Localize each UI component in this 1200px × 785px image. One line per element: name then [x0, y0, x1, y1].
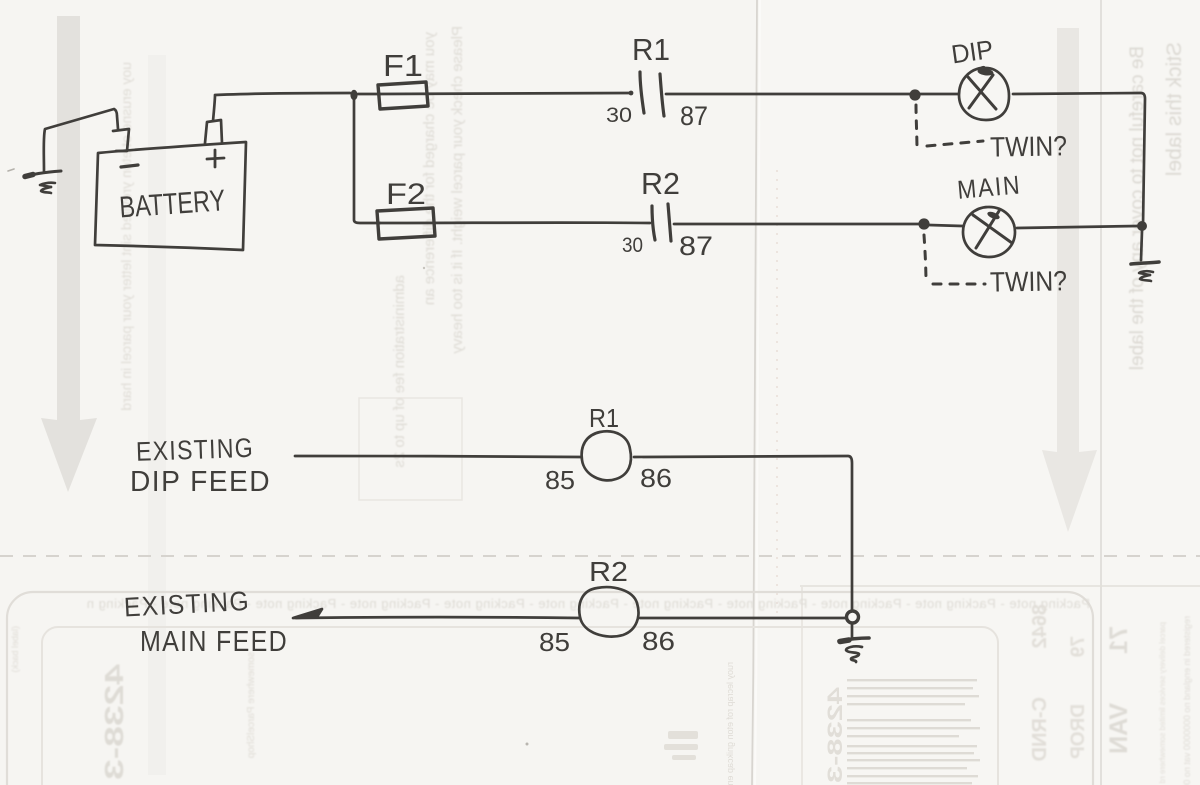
wire: node A to fuse F1: [358, 93, 380, 96]
ground (battery negative return): [8, 169, 61, 193]
relay coil R2 (pins 85 / 86): [539, 556, 675, 657]
svg-text:you may be charged for the dif: you may be charged for the difference an: [421, 32, 438, 305]
crease and faint verticals: [752, 0, 757, 785]
svg-text:DIP: DIP: [949, 34, 995, 70]
label: EXISTING MAIN FEED: [123, 586, 288, 658]
relay contact R1 (pins 30 / 87): [606, 32, 708, 131]
svg-text:87: 87: [679, 231, 713, 261]
svg-text:MAIN FEED: MAIN FEED: [140, 626, 288, 658]
wire: node B to DIP lamp: [920, 93, 958, 96]
fuse F1: [378, 48, 428, 109]
svg-text:4238-3: 4238-3: [824, 687, 847, 783]
faint label boxes: [7, 592, 1093, 785]
svg-text:administration fee of up to 2s: administration fee of up to 2s: [391, 275, 408, 468]
dashed fold line: [0, 555, 1200, 557]
svg-text:8642: 8642: [1029, 604, 1051, 649]
wire: main feed arrow to relay coil R2: [296, 616, 579, 619]
node B junction: [909, 89, 920, 100]
svg-text:F2: F2: [386, 178, 426, 211]
svg-text:TWIN?: TWIN?: [990, 265, 1068, 297]
svg-text:registered in england no 00000: registered in england no 0000000 vat no …: [1182, 616, 1192, 785]
wire: fuse F1 to relay contact R1: [380, 93, 631, 94]
wire: node E down to coil-return ground: [851, 623, 854, 638]
svg-text:F1: F1: [383, 48, 423, 83]
node D junction: [918, 218, 929, 229]
svg-text:85: 85: [545, 465, 575, 495]
svg-text:DIP FEED: DIP FEED: [130, 466, 271, 498]
fuse F2: [377, 178, 435, 239]
svg-text:uoy erusne ot eton yreviled si: uoy erusne ot eton yreviled siht letter …: [118, 62, 134, 411]
wire: battery positive to node A: [213, 93, 350, 121]
node A junction: [350, 90, 357, 100]
wire: node D to MAIN lamp: [929, 225, 962, 226]
svg-text:R1: R1: [589, 403, 619, 433]
svg-text:R2: R2: [641, 166, 680, 201]
svg-text:4238-3: 4238-3: [99, 664, 129, 780]
relay coil R1 (pins 85 / 86): [545, 403, 672, 495]
lamp DIP: [949, 34, 1009, 120]
svg-text:VAN: VAN: [1105, 703, 1133, 754]
wire: existing dip feed to relay coil R1: [295, 456, 581, 457]
svg-text:TWIN?: TWIN?: [990, 130, 1068, 162]
wire: coil R1 pin 86 right and down to node E: [634, 456, 852, 610]
bottom paragraph block of tiny mirrored print: [847, 679, 980, 784]
svg-text:ruoy lecrap rof eton gnikcap e: ruoy lecrap rof eton gnikcap emos: [725, 662, 735, 785]
wire: contact R2 pin 87 to node D: [674, 223, 919, 226]
big faded arrows: [41, 16, 97, 492]
svg-text:87: 87: [680, 101, 708, 131]
wire: coil R2 pin 86 to node E: [640, 617, 846, 620]
dashed tap at node D with TWIN? note: [924, 235, 1067, 298]
battery BT1: [95, 120, 246, 250]
dashed tap at node B with TWIN? note: [916, 105, 1067, 163]
svg-text:Please check your parcel weigh: Please check your parcel weight. If it i…: [449, 26, 466, 354]
svg-text:somewhere ParcelShop: somewhere ParcelShop: [246, 652, 257, 759]
ground (coil return): [839, 638, 869, 662]
relay contact R2 (pins 30 / 87): [622, 166, 713, 261]
svg-text:30: 30: [606, 104, 632, 127]
wire: node A down to fuse F2: [354, 99, 380, 223]
svg-text:C-RND: C-RND: [1029, 697, 1051, 761]
svg-text:R2: R2: [589, 556, 628, 587]
wire: contact R1 pin 87 to node B: [666, 93, 911, 96]
svg-text:DROP: DROP: [1068, 704, 1089, 759]
svg-text:Stick this label: Stick this label: [1163, 42, 1186, 176]
svg-text:79: 79: [1068, 636, 1089, 657]
node E junction (small loop): [847, 611, 859, 623]
svg-text:R1: R1: [632, 32, 670, 67]
svg-text:parcel delivery services limit: parcel delivery services limited somewhe…: [1158, 622, 1167, 783]
lamp MAIN: [956, 169, 1022, 257]
svg-text:30: 30: [622, 234, 643, 257]
svg-text:86: 86: [640, 463, 672, 493]
arrow head: existing main feed (points left): [293, 609, 322, 618]
svg-text:86: 86: [642, 626, 675, 656]
svg-text:(label back): (label back): [10, 626, 20, 673]
svg-text:71: 71: [1105, 626, 1133, 654]
svg-text:85: 85: [539, 627, 570, 657]
wire: ground up and over to battery negative terminal: [44, 109, 118, 172]
svg-text:MAIN: MAIN: [956, 169, 1022, 204]
label: EXISTING DIP FEED: [130, 433, 271, 498]
wire: fuse F2 to relay contact R2: [380, 221, 650, 224]
svg-text:EXISTING: EXISTING: [136, 433, 255, 467]
node C junction: [1137, 221, 1147, 231]
wire: node C to lamp-return ground: [1141, 231, 1142, 260]
ground (lamp return): [1131, 262, 1159, 281]
wire: DIP lamp to right rail corner: [1013, 93, 1145, 226]
wire: MAIN lamp to node C: [1017, 226, 1137, 228]
